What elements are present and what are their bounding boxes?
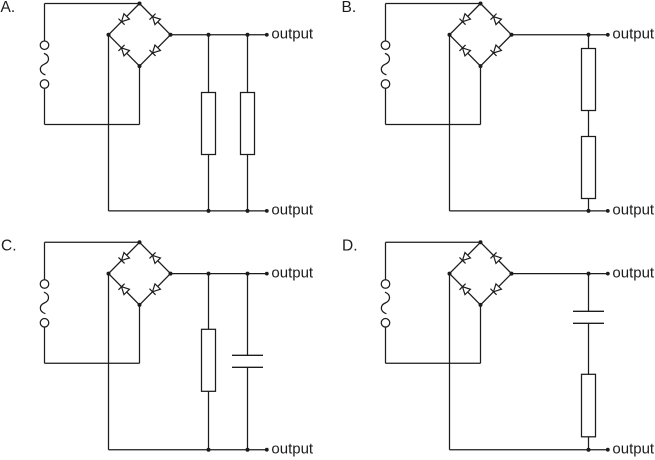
wire B: top lead from source to bridge top: [386, 3, 481, 5]
diode D1 (top-left) C: [118, 253, 129, 264]
wire A: R1 lower lead: [208, 155, 210, 211]
AC source terminal (lower circle) A: [40, 80, 49, 89]
resistor R2 B: [582, 137, 596, 199]
resistor R1 D: [582, 374, 596, 437]
resistor R2 A: [241, 93, 255, 155]
wire A: R2 lower lead: [247, 155, 249, 211]
wire C: C1 lower lead: [247, 367, 249, 449]
AC source sine squiggle A: [40, 53, 48, 75]
diode D4 (bottom-right) C: [149, 284, 160, 295]
output terminal dot (top) C: [265, 272, 269, 276]
bridge edge bottom-left C: [109, 274, 140, 305]
junction top rail / C1 C: [246, 272, 250, 276]
svg-text:output: output: [612, 26, 655, 43]
AC source terminal (lower circle) C: [40, 319, 49, 328]
output terminal dot (bottom) B: [606, 209, 610, 213]
wire D: top output rail: [512, 273, 608, 275]
wire A: source lower lead: [44, 88, 46, 124]
diode D3 (bottom-left) B: [459, 45, 470, 56]
bridge right node C: [169, 272, 173, 276]
bridge bottom node B: [479, 64, 483, 68]
bridge bottom node D: [479, 303, 483, 307]
bridge edge bottom-left A: [109, 35, 140, 66]
capacitor C1 D: [573, 311, 604, 323]
wire C: source return horizontal: [45, 362, 140, 364]
wire B: top output rail: [512, 34, 608, 36]
output terminal dot (bottom) D: [606, 448, 610, 452]
output terminal dot (bottom) C: [265, 448, 269, 452]
bridge left node A: [107, 33, 111, 37]
wire B: source return horizontal: [386, 124, 481, 126]
wire C: R1 upper lead: [208, 274, 210, 330]
diode D1 (top-left) D: [459, 253, 470, 264]
junction top rail / R1 C: [207, 272, 211, 276]
output terminal dot (top) D: [606, 272, 610, 276]
diode D1 (top-left) B: [459, 14, 470, 25]
wire A: source upper lead: [44, 4, 46, 42]
diode D2 (top-right) D: [490, 252, 501, 263]
wire B: R1 upper lead: [588, 35, 590, 49]
wire D: riser to bridge bottom node: [480, 305, 482, 363]
bridge edge bottom-left B: [450, 35, 481, 66]
svg-text:output: output: [612, 441, 655, 458]
svg-text:C.: C.: [1, 238, 17, 255]
wire D: source return horizontal: [386, 362, 481, 364]
bridge top node C: [138, 240, 142, 244]
wire D: C1 upper lead: [588, 274, 590, 312]
bridge edge bottom-right B: [481, 35, 512, 66]
wire D: R1 lower lead: [588, 437, 590, 450]
AC source terminal (upper circle) D: [381, 280, 390, 289]
junction bottom rail / R1 C: [207, 448, 211, 452]
wire C: R1 lower lead: [208, 391, 210, 449]
bridge left node C: [107, 272, 111, 276]
bridge edge top-left D: [450, 242, 481, 273]
output terminal dot (top) A: [265, 33, 269, 37]
diode D2 (top-right) A: [149, 14, 160, 25]
junction bottom rail / R1 A: [207, 209, 211, 213]
bridge edge top-left A: [109, 4, 140, 35]
bridge edge top-right B: [481, 4, 512, 35]
wire B: bridge left node down to bottom rail: [449, 35, 451, 211]
wire B: bottom output rail: [450, 210, 608, 212]
diode D3 (bottom-left) C: [118, 284, 129, 295]
bridge top node D: [479, 240, 483, 244]
junction bottom rail / series chain B: [587, 209, 591, 213]
resistor R1 B: [582, 49, 596, 111]
svg-text:D.: D.: [342, 238, 358, 255]
wire A: top lead from source to bridge top: [45, 3, 140, 5]
bridge edge bottom-right D: [481, 274, 512, 305]
bridge edge top-left C: [109, 242, 140, 273]
diode D3 (bottom-left) D: [459, 284, 470, 295]
bridge top node B: [479, 2, 483, 6]
wire B: source upper lead: [385, 4, 387, 42]
resistor R1 C: [202, 329, 216, 391]
wire A: bridge left node down to bottom rail: [108, 35, 110, 211]
junction top rail / series chain D: [587, 272, 591, 276]
wire C: riser to bridge bottom node: [139, 305, 141, 363]
AC source terminal (lower circle) B: [381, 80, 390, 89]
wire C: C1 upper lead: [247, 274, 249, 356]
diode D4 (bottom-right) B: [490, 45, 501, 56]
resistor R1 A: [202, 93, 216, 155]
bridge left node D: [448, 272, 452, 276]
diode D1 (top-left) A: [118, 14, 129, 25]
svg-text:output: output: [271, 441, 314, 458]
AC source sine squiggle D: [381, 292, 389, 314]
wire A: R1 upper lead: [208, 35, 210, 93]
output terminal dot (bottom) A: [265, 209, 269, 213]
diode D2 (top-right) C: [149, 252, 160, 263]
bridge bottom node C: [138, 303, 142, 307]
AC source sine squiggle C: [40, 292, 48, 314]
wire D: C1-R1 link: [588, 323, 590, 374]
wire D: bridge left node down to bottom rail: [449, 274, 451, 450]
AC source sine squiggle B: [381, 53, 389, 75]
bridge edge top-right A: [140, 4, 171, 35]
junction bottom rail / R2 A: [246, 209, 250, 213]
output terminal dot (top) B: [606, 33, 610, 37]
diode D3 (bottom-left) A: [118, 45, 129, 56]
svg-text:output: output: [271, 264, 314, 281]
AC source terminal (upper circle) A: [40, 41, 49, 50]
wire D: source lower lead: [385, 327, 387, 363]
bridge top node A: [138, 2, 142, 6]
diode D2 (top-right) B: [490, 14, 501, 25]
wire C: bottom output rail: [109, 449, 267, 451]
diode D4 (bottom-right) D: [490, 284, 501, 295]
junction bottom rail / series chain D: [587, 448, 591, 452]
wire D: top lead from source to bridge top: [386, 241, 481, 243]
wire C: top lead from source to bridge top: [45, 241, 140, 243]
wire A: R2 upper lead: [247, 35, 249, 93]
AC source terminal (lower circle) D: [381, 319, 390, 328]
wire A: top output rail: [171, 34, 267, 36]
svg-text:output: output: [271, 26, 314, 43]
wire B: R2 lower lead: [588, 199, 590, 211]
svg-text:B.: B.: [342, 0, 357, 16]
junction top rail / R1 A: [207, 33, 211, 37]
AC source terminal (upper circle) B: [381, 41, 390, 50]
bridge edge top-right D: [481, 242, 512, 273]
junction top rail / R2 A: [246, 33, 250, 37]
bridge right node B: [510, 33, 514, 37]
svg-text:output: output: [612, 264, 655, 281]
bridge edge bottom-left D: [450, 274, 481, 305]
bridge bottom node A: [138, 64, 142, 68]
wire C: source upper lead: [44, 242, 46, 279]
capacitor C1 C: [232, 355, 263, 367]
svg-text:output: output: [612, 202, 655, 219]
bridge left node B: [448, 33, 452, 37]
junction top rail / series chain B: [587, 33, 591, 37]
wire A: riser to bridge bottom node: [139, 66, 141, 124]
wire C: top output rail: [171, 273, 267, 275]
diode D4 (bottom-right) A: [149, 45, 160, 56]
bridge edge top-left B: [450, 4, 481, 35]
bridge edge top-right C: [140, 242, 171, 273]
junction bottom rail / C1 C: [246, 448, 250, 452]
wire B: riser to bridge bottom node: [480, 66, 482, 124]
wire A: source return horizontal: [45, 124, 140, 126]
wire D: bottom output rail: [450, 449, 608, 451]
wire B: R1-R2 link: [588, 111, 590, 137]
wire B: source lower lead: [385, 88, 387, 124]
bridge right node A: [169, 33, 173, 37]
AC source terminal (upper circle) C: [40, 280, 49, 289]
svg-text:output: output: [271, 202, 314, 219]
bridge right node D: [510, 272, 514, 276]
wire C: source lower lead: [44, 327, 46, 363]
bridge edge bottom-right C: [140, 274, 171, 305]
wire D: source upper lead: [385, 242, 387, 279]
svg-text:A.: A.: [1, 0, 16, 16]
wire A: bottom output rail: [109, 210, 267, 212]
bridge edge bottom-right A: [140, 35, 171, 66]
wire C: bridge left node down to bottom rail: [108, 274, 110, 450]
